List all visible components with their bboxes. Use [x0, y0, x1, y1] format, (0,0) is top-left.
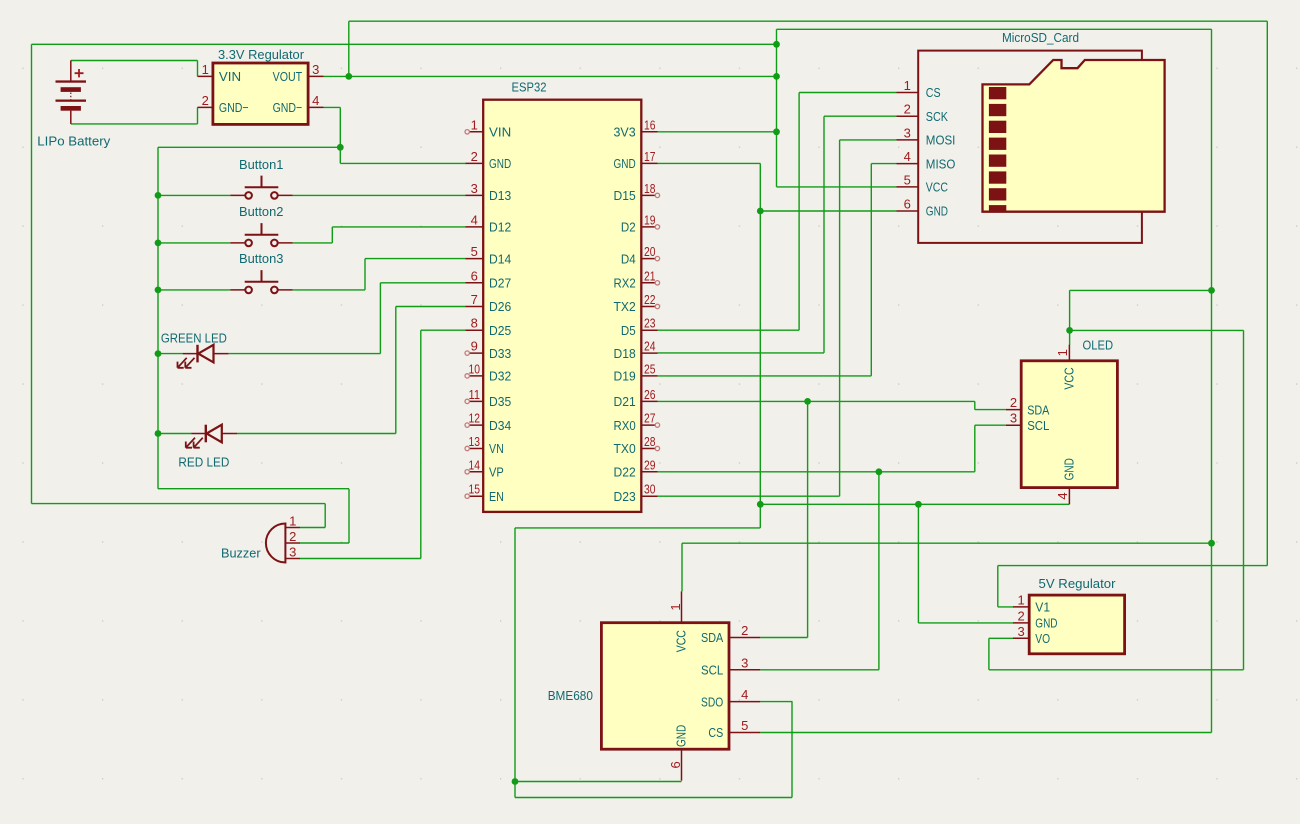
svg-text:2: 2 — [1017, 608, 1024, 623]
svg-text:3: 3 — [312, 62, 319, 77]
svg-text:D21: D21 — [614, 394, 636, 409]
svg-text:MISO: MISO — [926, 156, 956, 171]
svg-text:ESP32: ESP32 — [512, 80, 547, 95]
svg-text:MicroSD_Card: MicroSD_Card — [1002, 30, 1079, 45]
svg-text:15: 15 — [469, 482, 481, 497]
svg-text:VOUT: VOUT — [273, 69, 303, 84]
svg-text:1: 1 — [1055, 349, 1070, 356]
svg-text:27: 27 — [644, 411, 656, 426]
svg-text:SCL: SCL — [701, 663, 723, 678]
svg-text:21: 21 — [644, 268, 656, 283]
svg-text:LIPo Battery: LIPo Battery — [37, 134, 111, 149]
svg-text:GREEN LED: GREEN LED — [161, 331, 227, 346]
svg-text:6: 6 — [668, 761, 683, 768]
svg-text:Button2: Button2 — [239, 204, 283, 219]
svg-text:2: 2 — [1010, 395, 1017, 410]
svg-text:GND−: GND− — [219, 100, 249, 115]
svg-text:MOSI: MOSI — [926, 133, 956, 148]
svg-text:Buzzer: Buzzer — [221, 545, 261, 560]
svg-text:6: 6 — [471, 268, 478, 283]
svg-text:VCC: VCC — [1061, 367, 1076, 389]
svg-text:19: 19 — [644, 212, 656, 227]
svg-text:3V3: 3V3 — [614, 125, 636, 140]
svg-text:Button1: Button1 — [239, 157, 283, 172]
svg-text:30: 30 — [644, 482, 656, 497]
svg-text:24: 24 — [644, 339, 656, 354]
svg-text:RED LED: RED LED — [178, 455, 229, 470]
svg-text:4: 4 — [312, 93, 319, 108]
svg-text:10: 10 — [469, 361, 481, 376]
svg-text:17: 17 — [644, 149, 656, 164]
svg-text:16: 16 — [644, 117, 656, 132]
svg-text:GND−: GND− — [273, 100, 303, 115]
svg-text:GND: GND — [1061, 458, 1076, 480]
svg-text:D15: D15 — [614, 188, 636, 203]
svg-text:D5: D5 — [621, 323, 636, 338]
svg-text:25: 25 — [644, 361, 656, 376]
svg-text:1: 1 — [668, 603, 683, 610]
svg-text:4: 4 — [471, 212, 478, 227]
svg-text:VCC: VCC — [674, 630, 689, 652]
svg-text:4: 4 — [904, 149, 911, 164]
svg-text:SCK: SCK — [926, 109, 948, 124]
svg-text:3: 3 — [741, 655, 748, 670]
svg-text:D4: D4 — [621, 251, 636, 266]
svg-text:8: 8 — [471, 316, 478, 331]
svg-text:TX0: TX0 — [614, 441, 636, 456]
svg-text:3: 3 — [904, 125, 911, 140]
svg-text:3: 3 — [289, 544, 296, 559]
svg-text:3: 3 — [471, 181, 478, 196]
svg-text:GND: GND — [614, 156, 636, 171]
svg-text:1: 1 — [289, 513, 296, 528]
svg-text:3.3V Regulator: 3.3V Regulator — [218, 47, 305, 62]
svg-text:D14: D14 — [489, 251, 511, 266]
svg-text:29: 29 — [644, 457, 656, 472]
svg-text:5V Regulator: 5V Regulator — [1039, 576, 1117, 591]
svg-text:SCL: SCL — [1027, 418, 1049, 433]
svg-text:D13: D13 — [489, 188, 511, 203]
svg-text:11: 11 — [469, 387, 481, 402]
svg-text:3: 3 — [1010, 411, 1017, 426]
svg-text:EN: EN — [489, 489, 504, 504]
svg-text:2: 2 — [741, 623, 748, 638]
svg-text:Button3: Button3 — [239, 251, 283, 266]
svg-text:CS: CS — [926, 85, 941, 100]
svg-text:RX2: RX2 — [614, 276, 636, 291]
svg-text:1: 1 — [471, 117, 478, 132]
svg-text:VN: VN — [489, 441, 504, 456]
svg-text:VO: VO — [1035, 631, 1050, 646]
svg-text:28: 28 — [644, 434, 656, 449]
svg-text:OLED: OLED — [1083, 337, 1114, 352]
svg-text:5: 5 — [471, 244, 478, 259]
svg-text:14: 14 — [469, 457, 481, 472]
svg-text:13: 13 — [469, 434, 481, 449]
svg-text:12: 12 — [469, 411, 481, 426]
svg-text:D12: D12 — [489, 220, 511, 235]
svg-text:VP: VP — [489, 465, 504, 480]
svg-text:V1: V1 — [1035, 600, 1050, 615]
svg-text:RX0: RX0 — [614, 418, 636, 433]
svg-text:VCC: VCC — [926, 180, 948, 195]
svg-text:7: 7 — [471, 292, 478, 307]
svg-text:GND: GND — [674, 725, 689, 747]
svg-text:23: 23 — [644, 316, 656, 331]
svg-text:CS: CS — [708, 725, 723, 740]
svg-text:26: 26 — [644, 387, 656, 402]
svg-text:GND: GND — [1035, 616, 1057, 631]
svg-text:D18: D18 — [614, 346, 636, 361]
svg-text:18: 18 — [644, 181, 656, 196]
svg-text:D27: D27 — [489, 276, 511, 291]
svg-text:GND: GND — [926, 204, 948, 219]
svg-text:2: 2 — [202, 93, 209, 108]
svg-text:5: 5 — [904, 172, 911, 187]
svg-text:SDA: SDA — [701, 630, 723, 645]
svg-text:D33: D33 — [489, 346, 511, 361]
svg-text:2: 2 — [289, 529, 296, 544]
svg-text:SDO: SDO — [701, 694, 723, 709]
svg-text:5: 5 — [741, 718, 748, 733]
svg-text:6: 6 — [904, 197, 911, 212]
svg-text:D25: D25 — [489, 323, 511, 338]
svg-text:3: 3 — [1017, 624, 1024, 639]
svg-text:20: 20 — [644, 244, 656, 259]
svg-text:D35: D35 — [489, 394, 511, 409]
svg-text:1: 1 — [904, 78, 911, 93]
svg-text:D2: D2 — [621, 220, 636, 235]
svg-text:4: 4 — [1055, 492, 1070, 499]
svg-text:BME680: BME680 — [548, 688, 593, 703]
svg-text:1: 1 — [1017, 592, 1024, 607]
svg-text:VIN: VIN — [489, 125, 511, 140]
svg-text:D22: D22 — [614, 465, 636, 480]
svg-text:SDA: SDA — [1027, 402, 1049, 417]
svg-text:GND: GND — [489, 156, 511, 171]
svg-text:1: 1 — [202, 62, 209, 77]
svg-text:2: 2 — [904, 102, 911, 117]
svg-text:D23: D23 — [614, 489, 636, 504]
svg-text:D32: D32 — [489, 369, 511, 384]
svg-text:D34: D34 — [489, 418, 511, 433]
svg-text:4: 4 — [741, 687, 748, 702]
svg-text:9: 9 — [471, 339, 478, 354]
svg-text:D19: D19 — [614, 369, 636, 384]
svg-text:2: 2 — [471, 149, 478, 164]
svg-text:VIN: VIN — [219, 69, 241, 84]
svg-text:TX2: TX2 — [614, 299, 636, 314]
svg-text:22: 22 — [644, 292, 656, 307]
svg-text:D26: D26 — [489, 299, 511, 314]
